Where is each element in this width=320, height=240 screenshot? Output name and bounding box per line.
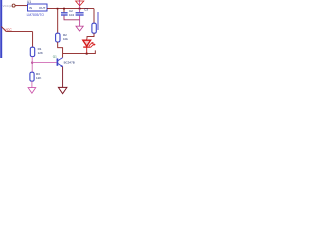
svg-text:104: 104	[69, 13, 74, 17]
svg-text:10k: 10k	[63, 37, 68, 41]
svg-text:LM7805/TO: LM7805/TO	[27, 13, 45, 17]
svg-text:U1: U1	[27, 0, 31, 4]
svg-text:BC547B: BC547B	[64, 61, 75, 65]
svg-text:Q1: Q1	[53, 54, 57, 58]
svg-text:C3: C3	[84, 8, 88, 12]
svg-text:12K: 12K	[36, 76, 41, 80]
svg-text:12K: 12K	[38, 51, 43, 55]
svg-text:IN: IN	[29, 6, 32, 10]
svg-text:OUT: OUT	[39, 6, 46, 10]
